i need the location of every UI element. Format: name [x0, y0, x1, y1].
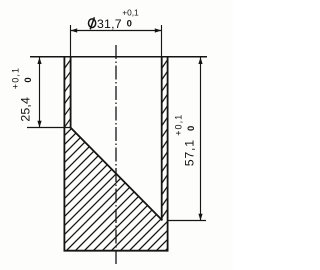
part top edge with extension lines left and right — [30, 56, 207, 58]
svg-text:57,1: 57,1 — [183, 139, 197, 166]
svg-text:0: 0 — [23, 77, 34, 82]
part outline: outer edges and bore — [64, 57, 167, 251]
dimension 31,7: arrows — [71, 28, 78, 32]
dimension 25,4: arrows — [37, 57, 41, 64]
svg-text:0: 0 — [186, 126, 197, 131]
section hatch: right wall — [162, 60, 168, 218]
diameter symbol of 31,7 — [89, 17, 96, 29]
dimension 31,7: extension and dimension lines — [71, 25, 162, 57]
svg-text:+0,1: +0,1 — [174, 114, 184, 136]
svg-text:0: 0 — [127, 18, 132, 29]
svg-text:+0,1: +0,1 — [11, 67, 21, 89]
svg-text:25,4: 25,4 — [19, 97, 33, 122]
section hatch: left wall — [64, 60, 70, 127]
dimension 25,4: dimension and extension lines — [27, 57, 71, 128]
svg-text:31,7: 31,7 — [97, 17, 122, 31]
centerline (dash-dot) — [115, 45, 117, 265]
dimension 57,1: dimension and extension lines — [168, 57, 206, 221]
dimension texts — [11, 8, 197, 167]
dimension 57,1: arrows — [198, 57, 202, 64]
svg-text:+0,1: +0,1 — [122, 8, 139, 18]
section hatch: solid bottom mass (45 deg) — [55, 25, 175, 270]
